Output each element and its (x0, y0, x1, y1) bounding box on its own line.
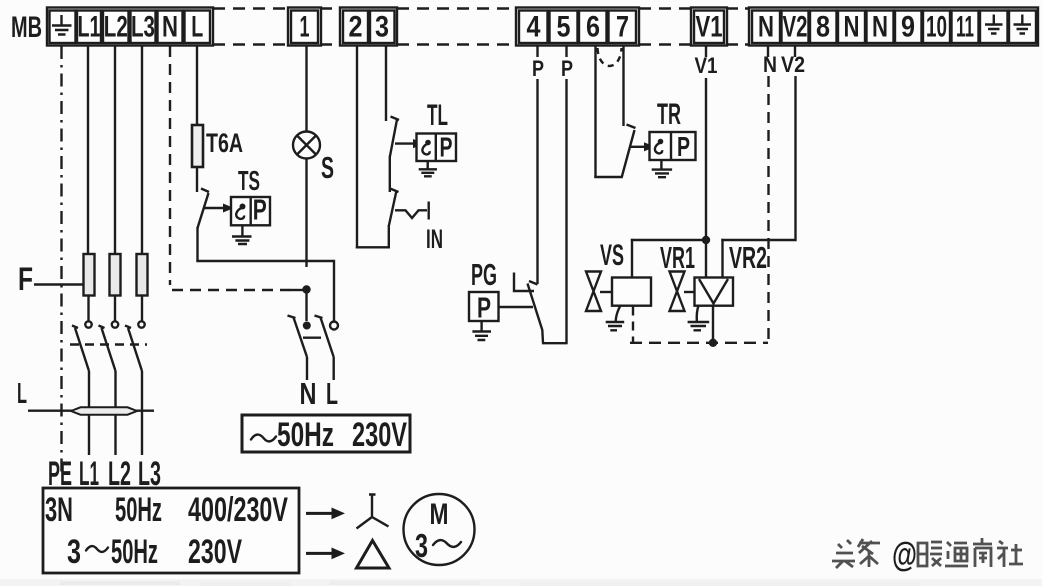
svg-text:VS: VS (600, 239, 624, 272)
svg-text:N: N (844, 11, 860, 44)
wire terminal6 down (594, 46, 596, 178)
watermark at sign (892, 536, 917, 574)
TR loop bottom (594, 176, 622, 178)
label L feed (17, 378, 27, 410)
wire lamp top (305, 46, 307, 132)
ground TL (419, 161, 437, 176)
legend box (43, 488, 299, 573)
pressure box TS (231, 197, 270, 225)
svg-text:50Hz: 50Hz (277, 416, 334, 454)
svg-text:M: M (430, 498, 449, 531)
svg-text:VR2: VR2 (729, 240, 767, 275)
terminal N4 (867, 11, 894, 44)
svg-text:1: 1 (300, 11, 310, 44)
ground TS (232, 225, 252, 244)
svg-text:230V: 230V (188, 533, 242, 571)
contact circle Q1c (138, 321, 144, 327)
switch blade Q1a (72, 326, 89, 372)
TL actuator arrow (395, 139, 424, 148)
terminal N3 (838, 11, 865, 44)
terminal 8 (810, 11, 837, 44)
label 3 motor (415, 527, 428, 564)
wire L1 upper (87, 46, 89, 255)
VR2 inner V (699, 279, 728, 304)
wire switch L down (333, 357, 335, 380)
wire terminal5 down (565, 79, 567, 344)
svg-text:MB: MB (11, 11, 42, 44)
switch PG blade (528, 281, 544, 343)
svg-text:V1: V1 (696, 11, 723, 44)
contact circle Q1a (85, 321, 91, 327)
tilde row2 (86, 546, 108, 552)
switch TS blade (198, 189, 210, 229)
main switch blade L (315, 316, 334, 358)
label V2 below terminal (781, 52, 805, 77)
svg-text:4: 4 (527, 11, 541, 44)
terminal 3 (370, 11, 395, 44)
label P in PG box (477, 293, 491, 325)
label IN (426, 224, 443, 254)
label P in TS box (253, 195, 267, 227)
wire L1 lower (88, 371, 90, 455)
svg-text:L: L (326, 376, 338, 411)
cable lens (71, 407, 137, 414)
main switch blade N (288, 316, 308, 358)
svg-text:N: N (758, 11, 774, 44)
svg-text:10: 10 (926, 11, 947, 44)
svg-text:L: L (191, 11, 203, 44)
svg-text:L3: L3 (131, 11, 155, 44)
SECTION: left power wires (17, 46, 161, 493)
svg-text:N: N (872, 11, 888, 44)
terminal N (158, 11, 183, 44)
terminal 6 (579, 11, 607, 44)
wire PG to terminal5 (542, 342, 568, 344)
wire N dashed vertical (169, 46, 171, 285)
svg-text:T6A: T6A (206, 128, 243, 158)
svg-text:9: 9 (901, 11, 915, 44)
IN contact zigzag (395, 202, 429, 220)
wire N dashed horizontal (172, 289, 293, 291)
valve bowtie VR1 (670, 272, 685, 312)
svg-text:50Hz: 50Hz (111, 533, 158, 571)
label VR1 (660, 240, 695, 275)
label 230V row2 (188, 533, 242, 571)
wire L3 upper (141, 46, 143, 255)
main switch pole N (303, 322, 311, 330)
label 230V rating box (352, 416, 407, 454)
wire N stub to node (291, 289, 305, 291)
fuse F1 (84, 254, 95, 296)
svg-text:11: 11 (956, 11, 974, 44)
svg-text:6: 6 (586, 11, 600, 44)
svg-text:TR: TR (657, 98, 681, 131)
PG actuator link (499, 306, 534, 308)
label M motor (430, 498, 449, 531)
terminal group frame G6 (749, 8, 1038, 46)
tilde symbol rating box (251, 435, 276, 442)
TR actuator arrow (629, 142, 655, 151)
terminal V1 (694, 11, 724, 44)
svg-text:L: L (17, 378, 27, 410)
svg-text:P: P (561, 56, 573, 81)
wire L3 lower (141, 371, 143, 455)
pressure box TR (650, 132, 696, 160)
TL hook symbol (422, 140, 430, 155)
SECTION: terminal strip (11, 8, 1038, 46)
wire VR2 to N rail (712, 306, 714, 343)
wire VS feed vertical (631, 239, 633, 278)
dashed jumper arc 6-7 (598, 48, 622, 66)
TS actuator arrow (203, 204, 234, 213)
valve box VR2 (695, 278, 734, 306)
svg-text:3: 3 (67, 533, 81, 571)
svg-text:TS: TS (238, 165, 260, 196)
wire L2 upper (114, 46, 116, 255)
motor circle M (404, 494, 475, 565)
switch TR blade (622, 125, 636, 179)
svg-text:F: F (18, 261, 33, 297)
wire TS to rail (196, 227, 198, 261)
terminal 1 (291, 11, 318, 44)
main switch pole L (330, 322, 338, 330)
switch TL blade (390, 117, 399, 158)
label 3 row2 (67, 533, 81, 571)
terminal ground B (1009, 11, 1036, 44)
terminal L2 (103, 11, 129, 44)
wire terminal7 down (622, 46, 624, 126)
label MB (11, 11, 42, 44)
wire L1 below fuse (87, 296, 89, 322)
label T6A (206, 128, 243, 158)
switch coupling dashed (70, 343, 147, 345)
svg-text:L1: L1 (78, 11, 101, 44)
SECTION: bottom legend (43, 488, 475, 573)
node junction N rail (709, 339, 717, 347)
label F (18, 261, 33, 297)
watermark char tou (832, 540, 855, 568)
wire control rail horizontal (196, 260, 334, 262)
label TL (427, 99, 448, 132)
label PE (48, 455, 72, 493)
svg-text:3: 3 (375, 11, 389, 44)
wire L2 lower (114, 371, 116, 455)
terminal 10 (923, 11, 950, 44)
terminal L3 (131, 11, 156, 44)
label P in TL box (440, 132, 453, 163)
terminal V2 (782, 11, 809, 44)
delta symbol (357, 541, 390, 569)
wire VS feed horizontal (631, 239, 706, 241)
dashed N rail bottom (630, 342, 768, 344)
valve bowtie VS (586, 272, 601, 312)
label 50Hz row1 (115, 491, 162, 529)
wire L2 below fuse (114, 296, 116, 322)
dashed strip rail 1 (213, 9, 288, 45)
watermark char she (997, 541, 1023, 567)
coil box VS (612, 278, 651, 306)
VS link (600, 291, 612, 293)
label TR (657, 98, 681, 131)
label S (321, 150, 334, 185)
terminal group frame G2 (288, 8, 321, 46)
wire V1 stub (705, 46, 707, 57)
watermark char tiao (858, 539, 880, 567)
terminal PE box (50, 11, 76, 44)
svg-text:N: N (300, 376, 317, 411)
terminal L1 (77, 11, 101, 44)
tilde motor (433, 540, 461, 547)
svg-text:P: P (532, 56, 544, 81)
svg-text:3N: 3N (45, 491, 73, 529)
wire L control (196, 46, 198, 125)
wire N2 stub (767, 46, 769, 57)
svg-text:TL: TL (427, 99, 448, 132)
wire node to switch N pole (305, 290, 307, 322)
wire V2 down (721, 76, 796, 241)
watermark char nan (973, 538, 992, 567)
svg-text:P: P (677, 131, 690, 162)
wire F label leader (34, 283, 83, 285)
wire terminal2 to TL branch (356, 246, 390, 248)
scan artifact bottom band (0, 579, 1042, 586)
terminal 7 (609, 11, 637, 44)
wire V1 down (705, 78, 707, 278)
fuse F2 (110, 254, 121, 296)
terminal N2 (752, 11, 780, 44)
svg-text:2: 2 (349, 11, 363, 44)
wire N2 dashed down (767, 76, 769, 343)
wire L feed line (28, 410, 154, 412)
ground symbol in PE terminal (52, 15, 72, 35)
wire terminal3 down (385, 46, 387, 121)
svg-text:@: @ (892, 536, 917, 574)
label VS (600, 239, 624, 272)
dashed strip rail 2 (321, 9, 340, 45)
SECTION: watermark (832, 536, 1023, 574)
label P in TR box (677, 131, 690, 162)
svg-text:400/230V: 400/230V (188, 491, 288, 529)
watermark char tong (945, 542, 968, 566)
terminal group frame G5 (691, 8, 727, 46)
terminal L (185, 11, 211, 44)
svg-text:N: N (763, 52, 777, 77)
rating box 230V (242, 415, 410, 452)
lamp S (293, 132, 320, 159)
label TS (238, 165, 260, 196)
svg-text:50Hz: 50Hz (115, 491, 162, 529)
star symbol (357, 495, 389, 529)
label 50Hz rating box (277, 416, 334, 454)
label V1 below terminal (695, 53, 718, 78)
dashed strip rail 3 (397, 9, 516, 45)
terminal 9 (895, 11, 922, 44)
terminal group frame G1 (47, 8, 213, 46)
ground VR2 (688, 306, 710, 331)
wire V2 stub (794, 46, 796, 57)
terminal 11 (952, 11, 979, 44)
wire rail to switch L (333, 260, 335, 321)
wire IN down (388, 225, 390, 249)
contact circle Q1b (112, 321, 118, 327)
wire terminal5 stub (565, 46, 567, 57)
wire TL to IN (389, 156, 391, 192)
terminal group frame G3 (340, 8, 397, 46)
svg-text:PG: PG (471, 257, 497, 292)
label 3N (45, 491, 73, 529)
pressure box PG (469, 292, 499, 321)
wire L3 below fuse (141, 296, 143, 322)
wire lamp bottom (305, 159, 307, 268)
node junction N-switch (302, 285, 310, 293)
label 50Hz row2 (111, 533, 158, 571)
svg-text:V1: V1 (695, 53, 718, 78)
svg-text:N: N (162, 11, 178, 44)
pressure box TL (417, 134, 457, 162)
label L3 bottom (138, 455, 161, 493)
ground PG (472, 321, 491, 340)
label N below switch (300, 376, 317, 411)
ground VS (606, 306, 625, 331)
wire switch N down (306, 357, 308, 380)
dashed VS to N rail (632, 307, 634, 344)
fuse T6A (192, 125, 203, 167)
svg-text:P: P (253, 195, 267, 227)
PG fixed contact bracket (514, 273, 534, 292)
wire terminal4 stub (536, 46, 538, 57)
label L below switch (326, 376, 338, 411)
svg-text:V2: V2 (783, 11, 808, 44)
label N below terminal (763, 52, 777, 77)
wire terminal2 down (356, 46, 358, 249)
ground TR (652, 160, 672, 177)
terminal 5 (550, 11, 578, 44)
terminal 2 (343, 11, 368, 44)
label P terminal4 (532, 56, 544, 81)
dashed strip rail 5 (727, 9, 749, 45)
TS hook symbol (236, 204, 245, 219)
svg-text:230V: 230V (352, 416, 407, 454)
main switch coupling (303, 337, 321, 339)
switch blade Q1b (99, 326, 116, 372)
arrow delta (306, 548, 345, 560)
svg-text:7: 7 (616, 11, 629, 44)
TR hook symbol (655, 139, 663, 154)
terminal 4 (519, 11, 548, 44)
switch IN blade (389, 189, 399, 227)
dashed strip rail 4 (639, 9, 691, 45)
SECTION: right valves (469, 46, 805, 347)
VR1 link (684, 291, 695, 293)
label 400/230V (188, 491, 288, 529)
arrow star (306, 508, 345, 520)
switch blade Q1c (125, 326, 142, 372)
label L1 bottom (79, 455, 99, 493)
svg-text:IN: IN (426, 224, 443, 254)
svg-text:S: S (321, 150, 334, 185)
svg-text:VR1: VR1 (660, 240, 695, 275)
node junction V1 (702, 236, 710, 244)
svg-text:8: 8 (816, 11, 830, 44)
svg-text:L2: L2 (104, 11, 128, 44)
wire PE dash-dot (60, 46, 62, 476)
wire below T6A (196, 167, 198, 192)
wire V2 branch to VR2 (721, 239, 723, 278)
label P terminal5 (561, 56, 573, 81)
label PG (471, 257, 497, 292)
label VR2 (729, 240, 767, 275)
label L2 bottom (108, 455, 131, 493)
terminal ground A (980, 11, 1008, 44)
terminal group frame G4 (516, 8, 639, 46)
watermark char nuan (918, 542, 942, 566)
svg-text:3: 3 (415, 527, 428, 564)
wire terminal4 down (536, 79, 538, 284)
svg-text:V2: V2 (781, 52, 805, 77)
SECTION: control mid (170, 46, 456, 454)
svg-text:P: P (440, 132, 453, 163)
svg-text:5: 5 (557, 11, 571, 44)
svg-text:P: P (477, 293, 491, 325)
fuse F3 (137, 254, 148, 296)
